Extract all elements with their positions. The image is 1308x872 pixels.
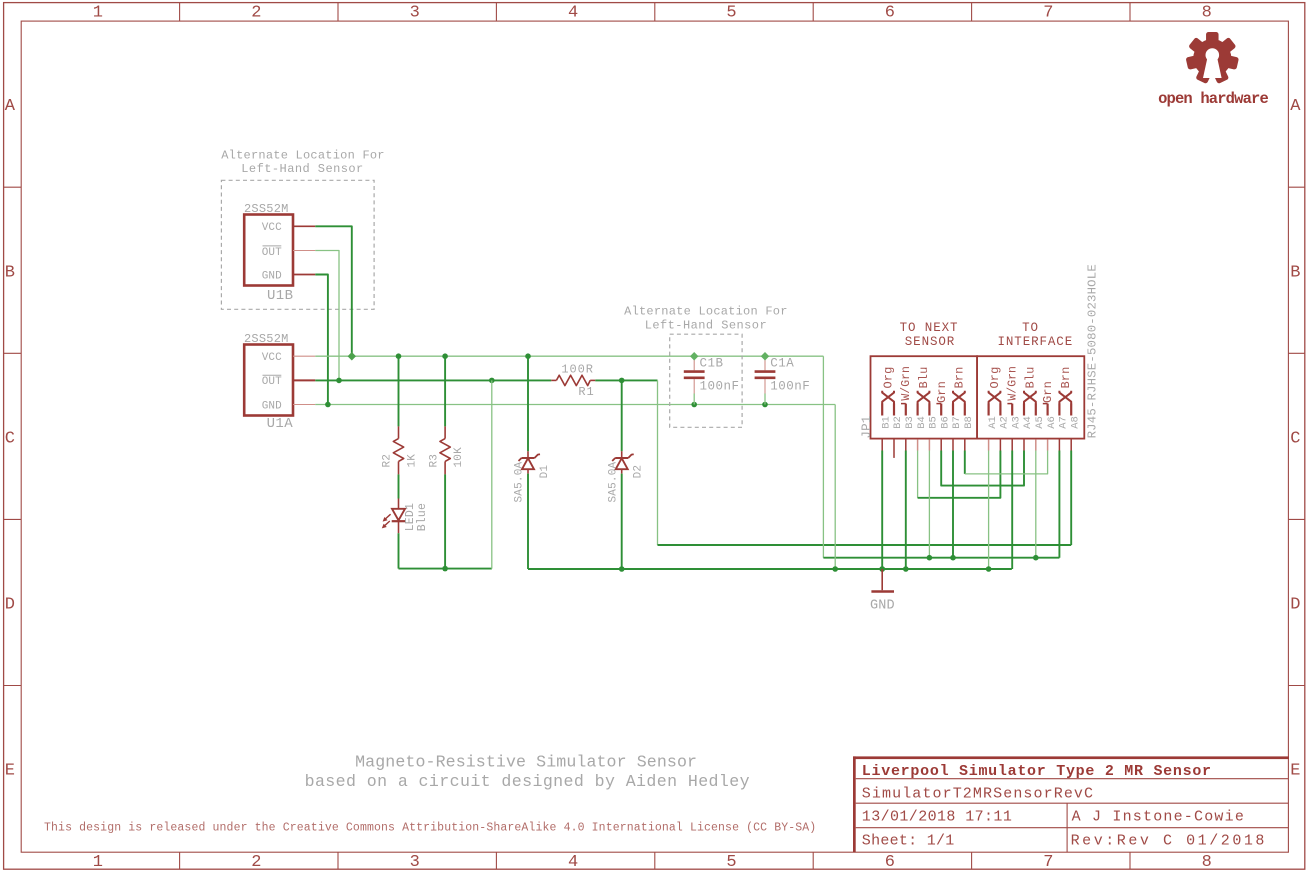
wire VCC down at right: [822, 356, 824, 558]
ground symbol: [871, 569, 894, 592]
junction GND/U1B: [325, 402, 331, 408]
label LED1 name: [404, 503, 417, 531]
svg-text:C: C: [5, 429, 15, 448]
svg-text:7: 7: [1043, 853, 1053, 872]
svg-text:4: 4: [568, 853, 578, 872]
wire B4 to A2: [918, 451, 1001, 498]
svg-text:2: 2: [251, 4, 261, 23]
wire B8 down: [964, 451, 966, 474]
pin label U1B GND: [262, 271, 282, 283]
svg-text:R3: R3: [428, 454, 440, 468]
svg-text:Blu: Blu: [917, 367, 931, 389]
wire B6 to A4: [941, 451, 1024, 486]
wire GND down at right: [834, 405, 836, 570]
connector JP1 box A side: [977, 356, 1084, 438]
junction diamond VCC/C1B: [690, 352, 698, 360]
svg-text:A2: A2: [999, 416, 1011, 429]
junction rail/R3: [442, 566, 448, 572]
svg-text:6: 6: [885, 4, 895, 23]
part 2SS52M label U1B: [244, 202, 289, 216]
license note: [44, 822, 816, 835]
pair labels B side: [882, 366, 967, 403]
hall sensor U1A box: [244, 345, 293, 416]
diode D1 TVS: [519, 451, 541, 473]
svg-text:A J Instone-Cowie: A J Instone-Cowie: [1072, 809, 1245, 826]
svg-text:D2: D2: [633, 465, 645, 479]
wire OUT down to pullup rail: [491, 380, 493, 568]
svg-text:8: 8: [1202, 4, 1212, 23]
svg-text:SimulatorT2MRSensorRevC: SimulatorT2MRSensorRevC: [862, 786, 1094, 803]
wire A1 to GND rail: [988, 451, 990, 570]
diode D2 TVS: [612, 451, 634, 473]
svg-text:SA5.0A: SA5.0A: [514, 461, 526, 502]
junction GND/C1A: [762, 402, 768, 408]
svg-text:W/Grn: W/Grn: [1006, 366, 1019, 401]
svg-text:Brn: Brn: [953, 367, 967, 389]
dashed outline U1B alternate location: [221, 180, 374, 309]
svg-text:A8: A8: [1069, 416, 1081, 429]
svg-text:GND: GND: [262, 271, 282, 283]
svg-text:GND: GND: [870, 599, 895, 614]
svg-text:10K: 10K: [453, 447, 465, 468]
wire A8 to OUT rail: [1070, 451, 1072, 546]
wire VCC bottom rail: [823, 557, 1059, 559]
svg-text:100nF: 100nF: [700, 380, 740, 394]
wire U1B OUT to OUT net: [315, 251, 339, 381]
subtitle based on a circuit designed by Aiden Hedley: [305, 772, 750, 791]
connector pin stubs: [882, 439, 1071, 458]
pin label U1B OUT: [262, 246, 282, 259]
svg-text:Org: Org: [882, 367, 896, 389]
svg-text:Left-Hand Sensor: Left-Hand Sensor: [645, 318, 767, 332]
capacitor C1A: [755, 356, 776, 404]
svg-text:W/Grn: W/Grn: [900, 366, 913, 401]
svg-text:B7: B7: [951, 416, 963, 429]
svg-text:Sheet: 1/1: Sheet: 1/1: [862, 832, 955, 849]
note alternate location C1B line2: [645, 318, 767, 332]
junction diamond VCC/C1A: [761, 352, 769, 360]
svg-text:Org: Org: [988, 367, 1002, 389]
svg-text:Alternate Location For: Alternate Location For: [624, 305, 788, 319]
wire OUT bottom rail: [658, 544, 1072, 546]
wire B5 to VCC rail: [928, 451, 930, 558]
svg-text:SENSOR: SENSOR: [905, 335, 955, 349]
svg-text:U1A: U1A: [267, 416, 294, 432]
label SENSOR: [905, 335, 955, 349]
svg-text:A4: A4: [1022, 416, 1034, 429]
label INTERFACE: [997, 335, 1073, 349]
title block row2 SimulatorT2MRSensorRevC: [862, 786, 1094, 803]
svg-text:2: 2: [251, 853, 261, 872]
junction VCC/U1B: [348, 352, 356, 360]
svg-text:JP1: JP1: [860, 415, 874, 438]
label C1B name: [700, 357, 724, 371]
junction OUT/D2: [619, 378, 625, 384]
junction VCC/R3: [442, 353, 448, 359]
label GND: [870, 599, 895, 614]
svg-text:Blue: Blue: [416, 503, 429, 531]
note alternate location U1B line2: [241, 162, 363, 176]
wire A7 to VCC rail: [1058, 451, 1060, 558]
row letters: [5, 97, 1302, 780]
pin label U1A VCC: [262, 352, 282, 364]
svg-text:E: E: [1290, 762, 1300, 781]
wire OUT down right of R1: [657, 380, 659, 545]
svg-text:D: D: [5, 596, 15, 615]
label C1A name: [770, 357, 794, 371]
pin label U1A GND: [262, 400, 282, 412]
svg-text:D: D: [1290, 596, 1300, 615]
junction OUT/pullup rail: [489, 378, 495, 384]
wire B8 to A6: [965, 451, 1048, 474]
svg-text:B4: B4: [916, 416, 928, 429]
junction VCCrail/A5: [1033, 555, 1039, 561]
refdes U1B: [267, 288, 293, 304]
pin label U1A OUT: [262, 375, 282, 388]
wire R1 leads: [551, 379, 595, 381]
wire A5 to VCC rail: [1035, 451, 1037, 558]
pin numbers B1-B8: [880, 416, 975, 429]
svg-text:TO: TO: [1022, 321, 1039, 335]
capacitor C1B: [684, 356, 705, 404]
title block frame: [853, 756, 1289, 852]
label D2 value SA5.0A: [607, 461, 619, 502]
label C1A value 100nF: [770, 380, 810, 394]
svg-text:TO NEXT: TO NEXT: [900, 321, 959, 335]
svg-text:Liverpool Simulator Type 2 MR: Liverpool Simulator Type 2 MR Sensor: [862, 763, 1212, 780]
svg-text:1: 1: [93, 4, 103, 23]
pin stub U1B OUT: [293, 250, 315, 252]
wire U1B GND to GND net: [315, 275, 328, 405]
svg-text:C1B: C1B: [700, 357, 724, 371]
label D1 name: [539, 465, 551, 479]
LED LED1: [382, 499, 406, 534]
svg-text:Magneto-Resistive Simulator Se: Magneto-Resistive Simulator Sensor: [355, 753, 697, 772]
wire U1B VCC to VCC net: [315, 226, 352, 356]
label D1 value SA5.0A: [514, 461, 526, 502]
refdes U1A: [267, 416, 294, 432]
title block sheet: [862, 832, 955, 849]
wire D2 to GND rail: [621, 474, 623, 569]
label R2 value 1K: [407, 454, 419, 468]
wire OUT net horizontal left: [315, 379, 551, 381]
svg-text:8: 8: [1202, 853, 1212, 872]
svg-text:OUT: OUT: [262, 247, 282, 259]
title Magneto-Resistive Simulator Sensor: [355, 753, 697, 772]
junction VCC/R2: [396, 353, 402, 359]
title block date: [862, 809, 1012, 826]
label TO: [1022, 321, 1039, 335]
junction GNDrail/GND symbol: [879, 566, 885, 572]
svg-text:VCC: VCC: [262, 352, 282, 364]
title block rev: [1071, 832, 1267, 849]
wire pullup rail: [399, 568, 492, 570]
svg-text:Brn: Brn: [1059, 367, 1073, 389]
svg-text:B2: B2: [892, 416, 904, 429]
wire B4 down: [917, 451, 919, 498]
junction OUT/U1B: [336, 378, 342, 384]
wire R2 to LED1: [398, 474, 400, 498]
svg-text:INTERFACE: INTERFACE: [997, 335, 1073, 349]
svg-text:RJ45-RJHSE-5080-023HOLE: RJ45-RJHSE-5080-023HOLE: [1086, 264, 1100, 438]
wire OUT to D2: [621, 380, 623, 451]
connector JP1 A-side pair crossings: [989, 391, 1072, 416]
pin stub U1A VCC: [293, 355, 315, 357]
wire B3 to GND rail: [905, 451, 907, 570]
label R3 value 10K: [453, 447, 465, 468]
junction GNDrail/A1: [986, 566, 992, 572]
svg-text:1K: 1K: [407, 454, 419, 468]
wire GND bottom rail: [528, 568, 1012, 570]
svg-text:C: C: [1290, 429, 1300, 448]
pair labels A side: [988, 366, 1073, 403]
resistor R3: [440, 426, 450, 474]
junction VCC/D1: [525, 353, 531, 359]
svg-text:R1: R1: [578, 385, 594, 399]
title block row1 Liverpool Simulator Type 2 MR Sensor: [862, 763, 1212, 780]
wire VCC to R3: [444, 356, 446, 426]
resistor R1 zigzag: [556, 375, 590, 385]
svg-text:3: 3: [410, 853, 420, 872]
svg-text:Grn: Grn: [1041, 381, 1055, 403]
svg-text:B8: B8: [963, 416, 975, 429]
wire VCC to R2: [398, 356, 400, 426]
svg-text:D1: D1: [539, 465, 551, 479]
svg-text:C1A: C1A: [770, 357, 794, 371]
label LED1 value Blue: [416, 503, 429, 531]
junction VCCrail/B5: [927, 555, 933, 561]
svg-text:A: A: [5, 97, 16, 116]
hall sensor U1B box: [244, 215, 293, 286]
pin stub U1B GND: [293, 274, 315, 276]
note alternate location C1B line1: [624, 305, 788, 319]
svg-text:100R: 100R: [561, 363, 593, 377]
svg-text:Alternate Location For: Alternate Location For: [221, 148, 385, 162]
wire VCC net horizontal: [315, 355, 823, 357]
svg-text:open hardware: open hardware: [1158, 90, 1268, 108]
svg-text:5: 5: [726, 853, 736, 872]
svg-text:7: 7: [1043, 4, 1053, 23]
label TO NEXT: [900, 321, 959, 335]
svg-text:A: A: [1290, 97, 1301, 116]
pin stub U1B VCC: [293, 225, 315, 227]
note alternate location U1B line1: [221, 148, 385, 162]
svg-text:R2: R2: [382, 454, 394, 468]
wire A3 to GND rail: [1011, 451, 1013, 570]
svg-text:A3: A3: [1010, 416, 1022, 429]
junction GNDrail/B1: [879, 566, 885, 572]
wire VCC to D1: [527, 356, 529, 451]
svg-text:B: B: [1290, 263, 1300, 282]
svg-text:SA5.0A: SA5.0A: [607, 461, 619, 502]
svg-text:1: 1: [93, 853, 103, 872]
junction GNDrail/GNDline: [832, 566, 838, 572]
label D2 name: [633, 465, 645, 479]
svg-text:B5: B5: [928, 416, 940, 429]
label R2 name: [382, 454, 394, 468]
svg-text:based on a circuit designed by: based on a circuit designed by Aiden Hed…: [305, 772, 750, 791]
label R1 value 100R: [561, 363, 593, 377]
svg-text:Rev:Rev C 01/2018: Rev:Rev C 01/2018: [1071, 832, 1267, 849]
resistor R2: [393, 426, 403, 474]
svg-text:6: 6: [885, 853, 895, 872]
wire R3 to pullup rail: [444, 474, 446, 568]
svg-text:A6: A6: [1046, 416, 1058, 429]
junction GND/C1B: [691, 402, 697, 408]
label R1 name: [578, 385, 594, 399]
label RJ45-RJHSE-5080-023HOLE: [1086, 264, 1100, 438]
wire B7 to VCC rail: [952, 451, 954, 558]
wire B1 to GND rail: [881, 451, 883, 570]
junction GNDrail/D2: [619, 566, 625, 572]
svg-text:5: 5: [726, 4, 736, 23]
label C1B value 100nF: [700, 380, 740, 394]
title block author A J Instone-Cowie: [1072, 809, 1245, 826]
junction GNDrail/B3: [903, 566, 909, 572]
svg-text:A5: A5: [1034, 416, 1046, 429]
svg-text:E: E: [5, 762, 15, 781]
label R3 name: [428, 454, 440, 468]
dashed outline C1B alternate location: [670, 334, 742, 427]
pin numbers A1-A8: [987, 416, 1082, 429]
open hardware logo text: [1158, 90, 1268, 108]
wire LED1 to pullup rail: [398, 533, 400, 568]
svg-text:This design is released under: This design is released under the Creati…: [44, 822, 816, 835]
svg-text:B6: B6: [939, 416, 951, 429]
svg-text:B1: B1: [880, 416, 892, 429]
svg-text:Blu: Blu: [1024, 367, 1038, 389]
pin label U1B VCC: [262, 222, 282, 234]
svg-text:A7: A7: [1058, 416, 1070, 429]
connector JP1 box B side: [871, 356, 978, 438]
wire GND net horizontal: [315, 404, 835, 406]
svg-text:VCC: VCC: [262, 222, 282, 234]
svg-text:3: 3: [410, 4, 420, 23]
open hardware logo gear: [1186, 32, 1239, 84]
svg-text:GND: GND: [262, 400, 282, 412]
part 2SS52M label U1A: [244, 332, 289, 346]
pin stub U1A OUT: [293, 379, 315, 381]
svg-text:Left-Hand Sensor: Left-Hand Sensor: [241, 162, 363, 176]
junction VCCrail/B7: [950, 555, 956, 561]
wire D1 to GND rail: [527, 474, 529, 569]
svg-text:OUT: OUT: [262, 376, 282, 388]
svg-text:B: B: [5, 263, 15, 282]
svg-text:Grn: Grn: [935, 381, 949, 403]
refdes JP1: [860, 415, 874, 438]
svg-text:B3: B3: [904, 416, 916, 429]
svg-text:13/01/2018 17:11: 13/01/2018 17:11: [862, 809, 1012, 826]
connector JP1 B-side pair crossings: [882, 391, 965, 416]
pin stub U1A GND: [293, 404, 315, 406]
svg-text:A1: A1: [987, 416, 999, 429]
svg-text:U1B: U1B: [267, 288, 293, 304]
svg-text:100nF: 100nF: [770, 380, 810, 394]
wire OUT net horizontal right: [595, 379, 657, 381]
svg-text:4: 4: [568, 4, 578, 23]
